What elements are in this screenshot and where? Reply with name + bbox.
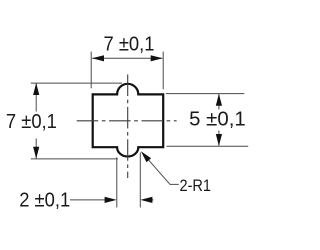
top dimension arrow left (92, 55, 104, 61)
right dimension arrow down (216, 134, 222, 146)
bottom dimension line right with arrow (144, 199, 154, 201)
svg-text:7 ±0,1: 7 ±0,1 (6, 111, 57, 133)
part outline: body with top and bottom R1 bumps (93, 84, 164, 157)
horizontal centerline (77, 120, 177, 122)
left dimension line upper segment (35, 83, 37, 111)
leader arrowhead (141, 151, 151, 162)
bottom dimension extension line right (139, 153, 141, 208)
right dimension extension line top (166, 93, 245, 95)
top dimension line (92, 57, 162, 59)
right dimension line upper segment (218, 94, 220, 109)
vertical centerline (127, 75, 129, 179)
top dimension extension line right (162, 52, 164, 90)
leader line for 2-R1 (142, 153, 179, 185)
right dimension extension line bottom (167, 145, 249, 147)
left dimension extension line top (31, 82, 122, 84)
svg-text:2-R1: 2-R1 (180, 177, 212, 195)
left dimension arrow up (33, 83, 39, 95)
svg-text:5 ±0,1: 5 ±0,1 (189, 108, 246, 130)
right dimension arrow up (216, 94, 222, 106)
left dimension arrow down (33, 147, 39, 159)
left dimension line lower segment (35, 139, 37, 159)
top dimension extension line left (90, 52, 92, 89)
top dimension arrow right (151, 55, 163, 61)
right dimension line lower segment (218, 131, 220, 146)
bottom dimension extension line left (116, 157, 118, 207)
bottom dimension line left with arrow (70, 199, 112, 201)
left dimension extension line bottom (31, 158, 118, 160)
svg-text:2 ±0,1: 2 ±0,1 (19, 190, 70, 212)
svg-text:7 ±0,1: 7 ±0,1 (104, 33, 155, 55)
